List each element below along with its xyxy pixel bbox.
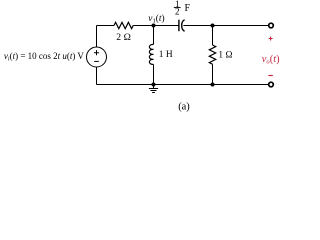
terminal bottom output open circle (269, 82, 274, 87)
svg-text:1 H: 1 H (159, 50, 173, 60)
terminal top output open circle (269, 23, 274, 28)
wire top-left vertical from source to top rail (96, 26, 98, 48)
label plus polarity (red) (269, 37, 273, 41)
wire top rail between capacitor and node (183, 25, 212, 27)
node junction dot bottom of 1 Ohm (211, 83, 215, 87)
node junction dot top of 1 Ohm (211, 24, 215, 28)
svg-text:1 Ω: 1 Ω (218, 51, 232, 61)
wire bottom-left vertical from source to bottom rail (96, 67, 98, 85)
node junction dot at ground (152, 83, 156, 87)
svg-text:2: 2 (175, 6, 180, 16)
wire bottom rail (97, 84, 269, 86)
svg-text:F: F (185, 3, 191, 14)
wire from node v1 down to inductor (153, 26, 155, 45)
capacitor C1 1/2 F (174, 0, 191, 31)
wire from top node down to 1 Ohm resistor (212, 26, 214, 46)
wire from inductor down to bottom rail (153, 64, 155, 84)
wire top rail right segment to terminal (213, 25, 269, 27)
inductor L1 1 H (149, 44, 172, 64)
svg-text:v1(t): v1(t) (148, 13, 164, 25)
wire from 1 Ohm resistor down to bottom rail (212, 64, 214, 84)
voltage source Vi (87, 47, 107, 67)
wire top rail left segment (97, 25, 115, 27)
label minus polarity (red) (268, 75, 272, 77)
node v1 with junction dot (148, 13, 164, 28)
svg-text:2 Ω: 2 Ω (116, 32, 131, 43)
svg-text:vo(t): vo(t) (262, 54, 280, 66)
ground (149, 85, 158, 93)
svg-text:(a): (a) (178, 102, 190, 113)
resistor R2 1 Ohm (209, 45, 232, 64)
wire top rail between resistor and capacitor (133, 25, 179, 27)
resistor R1 2 Ohm (114, 22, 133, 43)
svg-text:vi(t) = 10 cos 2t u(t) V: vi(t) = 10 cos 2t u(t) V (4, 51, 84, 63)
